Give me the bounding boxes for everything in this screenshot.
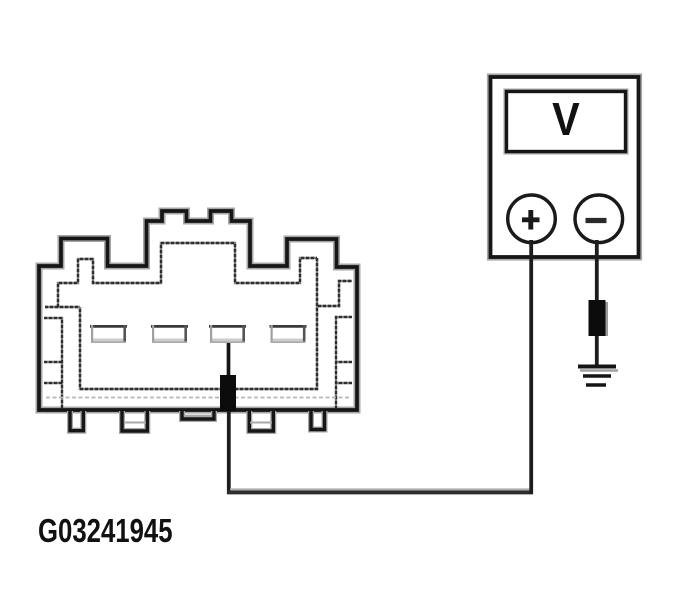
svg-text:V: V [552, 94, 580, 146]
